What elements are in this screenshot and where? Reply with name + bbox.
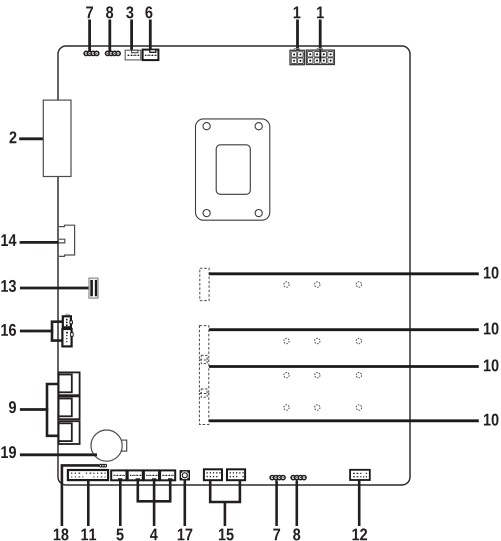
connector 15a (USB header) [204, 469, 222, 480]
M.2 slot line 2 [209, 328, 479, 331]
label 7 (top) [86, 7, 93, 19]
connector 16b [62, 329, 73, 346]
connector 11 (front panel header) [68, 470, 108, 481]
M.2 screw holes row 3 [284, 373, 362, 378]
connector 16a [63, 314, 73, 327]
label 1 (ATX 12V 8pin) [317, 7, 324, 19]
label 9 (SATA) [9, 401, 16, 413]
connector 8 bottom (4-pin circles) [291, 476, 306, 480]
leader line 5 [119, 480, 122, 526]
connector 1 tab (8-pin) [317, 48, 322, 50]
connector 12 [350, 470, 370, 480]
leader line 14 [20, 241, 59, 244]
label 18 [54, 528, 69, 540]
leader line 8 (top) [108, 20, 111, 53]
connector 17 (speaker/buzzer) [180, 471, 189, 480]
CPU socket hole TL [203, 123, 210, 130]
leader line 7 bottom [275, 480, 278, 526]
M.2 screw holes row 1 [284, 282, 362, 287]
connector 18 (tiny jumper) [99, 464, 106, 467]
connector 4b (system fan) [144, 470, 159, 480]
connector 7 top (4-pin header circles) [84, 51, 99, 55]
leader line 4 [153, 480, 156, 526]
CPU socket inner [216, 145, 250, 195]
connector 7 bottom (4-pin circles) [270, 476, 285, 480]
CPU socket hole BL [203, 210, 210, 217]
leader line 13 [20, 287, 92, 290]
leader line 11 [87, 481, 90, 527]
CPU socket hole TR [255, 123, 262, 130]
M.2 screw holes row 2 [284, 338, 362, 343]
battery holder tab [121, 440, 127, 451]
CPU socket hole BR [255, 210, 262, 217]
leader line 2 [19, 137, 43, 140]
M.2 slot line 4 [209, 419, 479, 422]
label 10 (M.2 #2) [484, 323, 499, 335]
label 15 [219, 529, 234, 541]
label 4 [150, 529, 158, 541]
label 3 (top) [126, 6, 133, 18]
leader line 3 (top) [130, 20, 133, 53]
leader line 7 (top) [88, 20, 91, 53]
connector 5 [111, 470, 126, 480]
connector 3 (CPU fan header) [125, 50, 141, 60]
M.2 connector dashed RA [199, 326, 208, 360]
M.2 slot line 1 [209, 272, 479, 275]
M.2 slot line 3 [209, 365, 479, 368]
M.2 connector dashed R1 [200, 268, 209, 300]
M.2 screw holes row 4 [284, 405, 362, 410]
connector 15b (USB header) [227, 469, 245, 480]
label 1 (ATX 12V) [294, 7, 301, 19]
label 11 [81, 529, 96, 541]
bracket 16 [52, 322, 63, 341]
M.2 connector junction cap A/B [201, 355, 207, 363]
label 10 (M.2 #3) [484, 359, 499, 371]
label 6 (top) [145, 6, 152, 18]
SATA connector 3 [59, 421, 80, 444]
leader line 1b [319, 20, 322, 51]
motherboard outline [58, 46, 410, 485]
connector 4a (system fan) [128, 470, 143, 480]
label 7 bottom [273, 529, 280, 541]
leader line 17 [184, 480, 187, 526]
connector 13 (vertical header) [89, 278, 98, 298]
label 2 (rear I/O) [9, 131, 16, 143]
leader line 18 [62, 465, 99, 526]
leader line 8 bottom [295, 480, 298, 526]
leader line 15 [224, 502, 227, 526]
connector 14 (USB type-C / edge connector) [59, 225, 75, 256]
connector 6 (fan header) [143, 50, 159, 61]
battery [91, 430, 122, 461]
leader line 6 (top) [149, 20, 152, 53]
label 10 (M.2 #1) [484, 267, 499, 279]
leader line 12 [358, 480, 361, 526]
leader line 9 [20, 408, 48, 411]
bracket 4 [138, 480, 170, 501]
M.2 connector junction cap B/C [201, 389, 207, 397]
label 8 (top) [106, 6, 113, 18]
label 17 [178, 529, 193, 541]
leader line 19 [20, 453, 97, 456]
label 14 [1, 234, 16, 246]
label 10 (M.2 #4) [484, 414, 499, 426]
bracket 15 [210, 480, 240, 502]
SATA connector 1 [59, 372, 80, 395]
label 12 [352, 528, 367, 540]
label 13 [1, 280, 16, 292]
label 8 bottom [293, 528, 300, 540]
connector 4c (system fan) [160, 470, 175, 480]
connector 8 top (4-pin header circles) [106, 51, 121, 55]
leader line 1a [296, 20, 299, 51]
M.2 connector dashed RC [199, 394, 208, 425]
connector 2 (back panel I/O block) [43, 100, 71, 176]
connector 1 tab (4-pin) [294, 49, 299, 51]
label 5 [116, 529, 123, 541]
label 16 [1, 324, 16, 336]
bracket 9 [47, 384, 59, 436]
connector 1 (ATX 12V 4-pin) [290, 50, 304, 64]
leader line 16 [20, 330, 53, 333]
label 19 (battery) [1, 446, 16, 458]
connector 1 (ATX 12V 8-pin) [306, 50, 334, 64]
M.2 connector dashed RB [199, 360, 208, 393]
SATA connector 2 [59, 396, 80, 419]
CPU socket outer [196, 119, 270, 220]
